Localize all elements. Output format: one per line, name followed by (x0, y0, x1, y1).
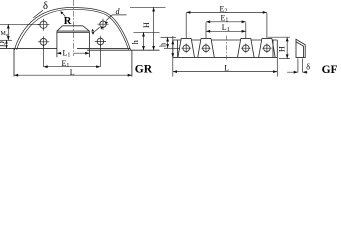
extension line Ma lower (0, 39, 12, 41)
arrowhead h GR bottom (142, 46, 145, 50)
H GR top extension (130, 6, 166, 8)
arrowhead h GF bottom (166, 44, 169, 48)
GR housing outer dome arc (15, 8, 131, 50)
svg-text:L: L (224, 63, 229, 72)
dimension h GF line (167, 37, 169, 48)
svg-text:H: H (142, 22, 151, 28)
arrowhead L1 right (85, 52, 89, 55)
bolt hole GR upper-left (40, 21, 47, 28)
arrowhead E2 left (186, 11, 190, 14)
GR housing inner dome arc (17, 9, 129, 50)
GF boss hole A (178, 38, 195, 57)
GF bar bottom edge (173, 56, 277, 58)
bolt hole GF B (203, 45, 210, 52)
GR flange right edge extension (131, 50, 133, 77)
GF bar top edge (173, 39, 277, 41)
H GF top extension (268, 36, 290, 38)
dimension D line (6, 40, 8, 48)
delta extension left (297, 59, 299, 73)
arrowhead E1 GF left (206, 20, 210, 23)
GR centerline (72, 0, 74, 56)
arrowhead E1 left (44, 65, 48, 68)
leader d lower tail (94, 27, 99, 32)
arrowhead H GF bottom (286, 54, 289, 58)
GR boss left chamfer (57, 26, 63, 31)
arrowhead D bottom (5, 45, 8, 48)
GF boss hole B (198, 38, 215, 57)
GF side profile inner edge (303, 46, 305, 58)
arrowhead Ma bottom (7, 36, 10, 40)
arrowhead D top (5, 40, 8, 43)
extension line hole lower-right down (99, 45, 101, 67)
bolt hole GF D (264, 45, 271, 52)
svg-text:L1: L1 (63, 48, 71, 58)
arrowhead L1 GF left (206, 30, 210, 33)
svg-text:L1: L1 (222, 23, 230, 33)
h GR top extension (134, 31, 160, 33)
svg-text:H: H (278, 46, 287, 52)
dimension H GR line (153, 7, 155, 50)
dimension Ma line (7, 24, 9, 40)
svg-text:E1: E1 (62, 59, 70, 69)
GF bar left inner edge (177, 40, 179, 57)
GF centerline (225, 36, 227, 60)
GF left edge dim line (172, 36, 174, 77)
arrowhead L GF left (173, 70, 177, 73)
arrowhead L1 left (57, 52, 61, 55)
arrowhead R leader (61, 11, 64, 14)
GR central boss top flat (63, 25, 83, 27)
bolt hole GF A (183, 45, 190, 52)
arrowhead delta left (294, 71, 298, 74)
dimension E1 GF line (206, 21, 246, 23)
GF boss hole C (238, 38, 255, 57)
arrowhead E1 right (96, 65, 100, 68)
extension E2 right (266, 13, 268, 38)
arrowhead d leader (105, 21, 108, 24)
arrowhead H GR bottom (152, 46, 155, 50)
dimension L GF line (173, 71, 277, 73)
GR flange shoulder line mid (77, 47, 131, 49)
arrowhead L right (128, 74, 132, 77)
extension line hole lower-left down (43, 45, 45, 67)
GF side profile inner diagonal (296, 42, 304, 46)
GF bar right outer edge (276, 40, 278, 57)
GF bar right inner edge (272, 40, 274, 57)
dimension L1 GF line (206, 30, 246, 32)
dimension E1 line (44, 66, 101, 68)
extension line hole center left (0, 23, 40, 25)
arrowhead L1 GF right (242, 30, 246, 33)
GF bar left outer edge (172, 40, 174, 57)
dimension H GF line (286, 37, 288, 58)
bolt hole GR lower-left (40, 38, 47, 45)
arrowhead H GF top (286, 37, 289, 41)
arrowhead H GR top (152, 7, 155, 11)
h GF top extension (161, 36, 177, 38)
arrowhead delta right (303, 71, 307, 74)
dimension L line (14, 74, 132, 76)
GR flange shoulder line left (0, 47, 57, 49)
arrowhead L GF right (273, 70, 277, 73)
arrowhead GF left-edge bottom (171, 53, 174, 57)
arrowhead s lower (92, 32, 95, 35)
arrowhead d lower (101, 26, 104, 29)
GR boss ledge lower line (57, 32, 90, 34)
GR flange left edge (13, 48, 15, 76)
dimension h GR line (143, 32, 145, 50)
arrowhead h GR top (142, 32, 145, 36)
bolt hole GF C (243, 45, 250, 52)
svg-text:δ: δ (43, 1, 48, 12)
leader line delta (33, 10, 43, 18)
leader line d (106, 15, 126, 21)
GR base line right (87, 49, 160, 51)
dimension L1 line (57, 52, 90, 54)
arrowhead Ma top (7, 24, 10, 28)
svg-text:GF: GF (322, 64, 338, 76)
svg-text:R: R (64, 16, 72, 27)
svg-text:h: h (158, 43, 167, 47)
arrowhead L left (14, 74, 18, 77)
bolt hole GR upper-right (100, 21, 106, 27)
svg-text:h: h (131, 40, 140, 44)
arrowhead s upper (91, 29, 94, 32)
svg-text:L: L (70, 68, 75, 77)
delta dim tails (287, 71, 308, 73)
extension E1 right GF (245, 23, 247, 39)
GF boss hole D (259, 38, 276, 57)
svg-text:Ma: Ma (1, 31, 8, 37)
bolt hole GR lower-right (97, 38, 104, 45)
GF side profile outline (296, 39, 305, 57)
GR boss ledge upper line (57, 30, 90, 32)
GR boss left wall (56, 31, 58, 57)
svg-text:D: D (0, 41, 7, 47)
dimension E2 line (186, 11, 267, 13)
arrowhead E1 GF right (242, 20, 246, 23)
svg-text:δ: δ (306, 62, 310, 71)
arrowhead h GF top (166, 37, 169, 41)
extension E2 left (185, 13, 187, 38)
GF right L extension (276, 57, 278, 76)
delta extension right (302, 59, 304, 73)
h GF mid extension (164, 47, 180, 49)
svg-text:GR: GR (135, 64, 153, 76)
leader line R (62, 12, 66, 16)
extension E1 left GF (205, 23, 207, 39)
GR boss right chamfer (83, 26, 90, 31)
arrowhead GF left-edge top (171, 40, 174, 44)
H GF bottom extension (279, 58, 290, 60)
arrowhead E2 right (263, 11, 267, 14)
GR boss right wall (88, 31, 90, 57)
